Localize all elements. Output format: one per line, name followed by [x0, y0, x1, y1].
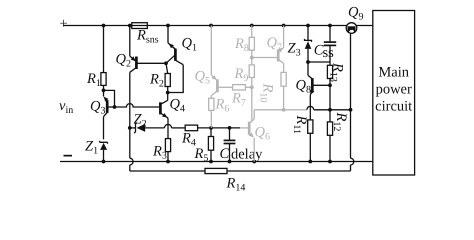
wire R4 to Q6 base line	[198, 127, 250, 129]
transistor Q4	[160, 93, 185, 119]
resistor R8 (grayed)	[234, 26, 254, 58]
wire Q1 collector to R2 bottom	[168, 65, 184, 93]
wire Q2 collector down	[129, 72, 131, 128]
resistor R9 (grayed)	[234, 58, 255, 88]
wire hop over Q4 emitter	[165, 124, 172, 128]
zener Z3	[288, 26, 312, 63]
node R2 bottom junction	[166, 91, 170, 95]
resistor R2	[149, 63, 170, 92]
transistor Q8	[296, 62, 331, 96]
wire R14 line left	[130, 170, 205, 172]
resistor R1	[86, 26, 106, 91]
resistor R7 (grayed)	[231, 85, 252, 109]
svg-text:power: power	[376, 82, 412, 98]
svg-text:circuit: circuit	[375, 99, 412, 115]
node bottom rail junction dots	[102, 160, 332, 164]
wire top positive rail	[63, 25, 373, 27]
resistor R6 (grayed)	[209, 96, 230, 128]
label - (negative terminal)	[64, 155, 73, 157]
node R12 top junction	[328, 108, 332, 112]
label vin	[59, 98, 73, 116]
wire Z3 Css bus	[306, 60, 330, 64]
transistor Q2	[116, 26, 167, 73]
transistor Q1	[166, 26, 197, 65]
wire R14 line right	[227, 110, 354, 171]
capacitor Cdelay	[220, 128, 264, 163]
svg-text:ss: ss	[323, 45, 335, 61]
wire Q8 emitter to R11	[309, 96, 311, 120]
transistor Q7 (grayed)	[252, 26, 284, 73]
resistor R4	[181, 125, 198, 148]
wire R13 bottom to R12 line	[329, 85, 331, 110]
resistor Rsns	[132, 23, 159, 46]
node Cdelay top junction	[228, 126, 232, 130]
resistor R12 (rotated label)	[327, 110, 349, 162]
svg-text:Main: Main	[378, 65, 409, 81]
wire Q4 emitter down to R3	[167, 118, 169, 138]
resistor R3	[152, 139, 171, 162]
label + (positive terminal)	[60, 16, 68, 32]
wire hop over R11 column	[307, 106, 314, 109]
node R9 R7 junction (grayed)	[250, 85, 254, 89]
node R13 bottom junction	[328, 83, 332, 87]
node Q1 base junction	[164, 61, 168, 65]
wire Z2 line to R4	[172, 127, 186, 129]
svg-text:delay: delay	[231, 147, 263, 163]
wire bottom negative rail	[60, 161, 373, 163]
resistor R10 (grayed, rotated label)	[258, 72, 287, 109]
main power circuit block	[373, 11, 415, 176]
node top rail junction dots	[102, 24, 332, 28]
resistor R11 (rotated label)	[291, 115, 313, 162]
resistor R14	[205, 168, 245, 193]
node R5 top junction	[209, 126, 213, 130]
zener Z2	[130, 112, 165, 134]
wire R14 drop from Z2 node	[130, 128, 133, 171]
wire Q3 base line to Q4	[115, 104, 161, 107]
node Q9 collector junction	[349, 108, 353, 112]
transistor Q6 (grayed)	[249, 87, 270, 161]
transistor Q3	[90, 90, 115, 139]
resistor R13 (rotated label)	[327, 62, 345, 85]
node R8 bottom junction (grayed)	[250, 56, 254, 60]
node R1 bottom junction	[102, 89, 117, 109]
capacitor Css	[314, 26, 336, 63]
svg-text:C: C	[220, 146, 230, 162]
resistor R5	[194, 128, 214, 164]
node Z2 line left junction	[128, 126, 132, 130]
wire R12 node line	[314, 109, 351, 111]
transistor Q9 (pass device in circle)	[346, 4, 363, 110]
transistor Q5 (grayed)	[195, 26, 233, 96]
svg-text:+: +	[60, 16, 68, 32]
wire gray line to R11 hop	[254, 108, 307, 112]
zener Z1	[85, 139, 108, 162]
